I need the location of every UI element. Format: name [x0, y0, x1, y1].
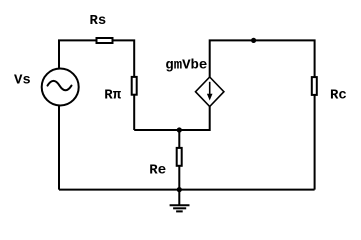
svg-text:Rπ: Rπ [104, 87, 121, 103]
svg-text:Re: Re [149, 163, 166, 179]
svg-text:Rs: Rs [90, 13, 107, 29]
svg-text:gmVbe: gmVbe [165, 58, 207, 74]
svg-text:Rc: Rc [330, 87, 347, 103]
svg-text:Vs: Vs [14, 73, 31, 89]
